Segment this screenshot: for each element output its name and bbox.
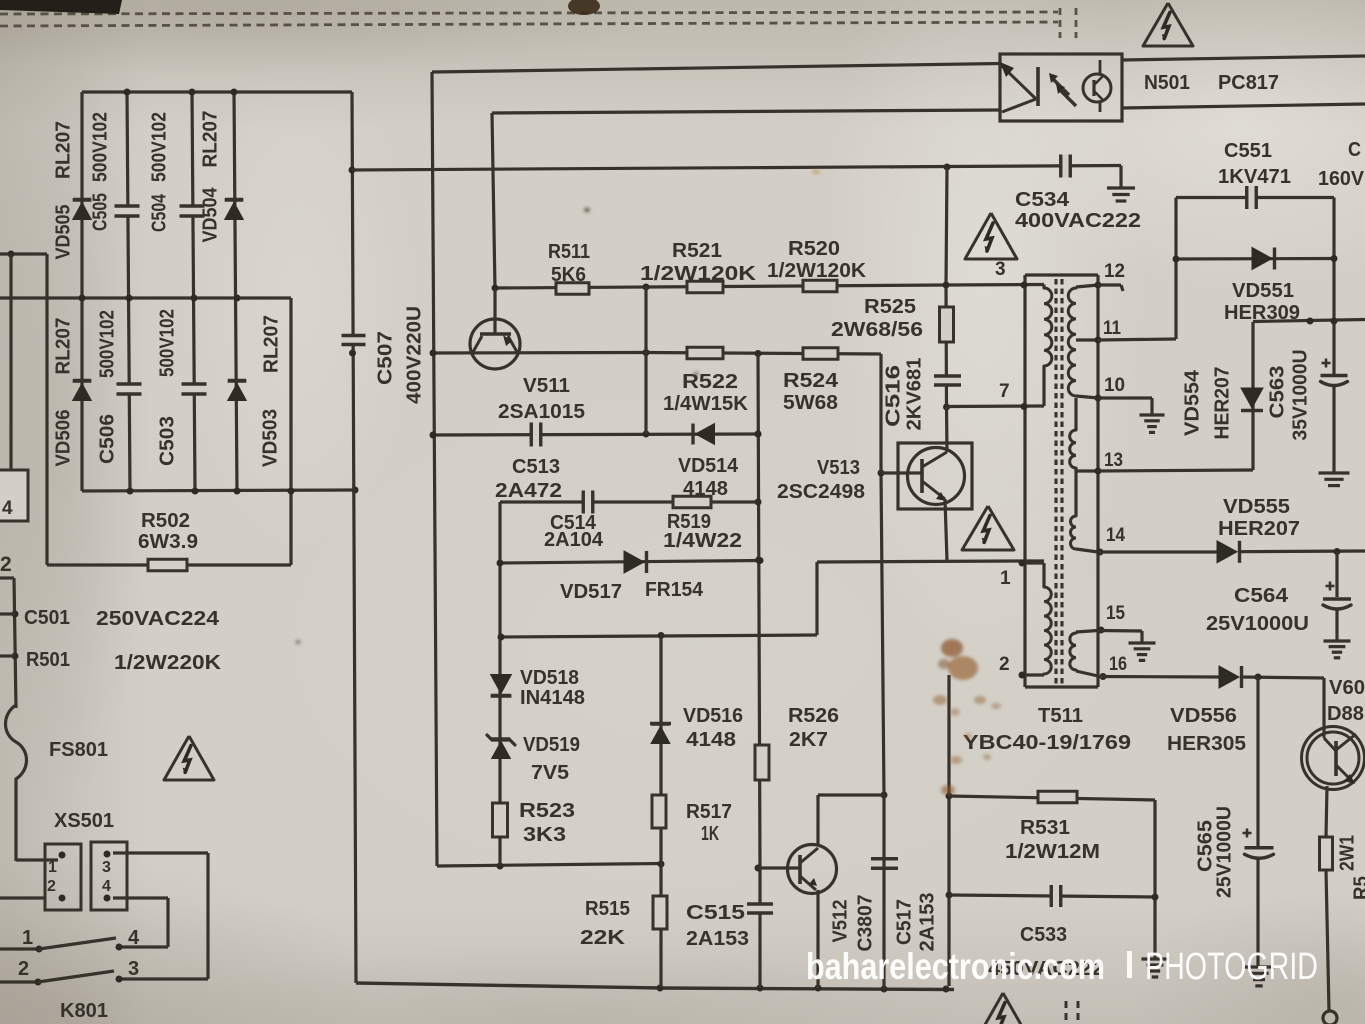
svg-text:C503: C503 — [156, 416, 178, 466]
svg-text:R525: R525 — [864, 296, 916, 318]
svg-text:25V1000U: 25V1000U — [1206, 613, 1309, 635]
svg-text:4148: 4148 — [686, 729, 736, 751]
svg-text:D88: D88 — [1327, 703, 1364, 725]
svg-text:C504: C504 — [148, 193, 170, 232]
svg-text:HER207: HER207 — [1211, 367, 1233, 440]
svg-text:C563: C563 — [1266, 366, 1288, 419]
svg-text:3K3: 3K3 — [523, 824, 566, 846]
svg-text:3: 3 — [128, 958, 139, 980]
svg-text:VD516: VD516 — [683, 705, 743, 727]
svg-text:2: 2 — [47, 878, 56, 895]
svg-text:160V: 160V — [1318, 168, 1365, 190]
svg-text:VD517: VD517 — [560, 581, 622, 603]
svg-text:2A153: 2A153 — [686, 928, 749, 950]
svg-text:500V102: 500V102 — [89, 112, 111, 182]
svg-text:K801: K801 — [60, 1000, 108, 1022]
svg-text:R502: R502 — [141, 510, 190, 532]
svg-text:R526: R526 — [788, 705, 839, 727]
svg-text:1/2W220K: 1/2W220K — [114, 652, 222, 674]
svg-text:VD519: VD519 — [523, 734, 580, 756]
svg-text:C516: C516 — [882, 365, 904, 427]
svg-text:16: 16 — [1109, 654, 1127, 675]
svg-text:1/4W22: 1/4W22 — [663, 530, 742, 552]
svg-text:35V1000U: 35V1000U — [1289, 350, 1311, 441]
svg-text:2KV681: 2KV681 — [903, 358, 925, 431]
svg-text:R511: R511 — [548, 241, 590, 263]
svg-text:RL207: RL207 — [199, 111, 221, 168]
svg-text:C564: C564 — [1234, 585, 1289, 607]
svg-text:1: 1 — [48, 859, 57, 876]
svg-text:R515: R515 — [585, 898, 630, 920]
svg-text:VD505: VD505 — [52, 205, 74, 260]
svg-text:500V102: 500V102 — [148, 112, 170, 182]
svg-text:500V102: 500V102 — [156, 309, 178, 377]
svg-text:4: 4 — [2, 498, 13, 519]
svg-text:10: 10 — [1104, 375, 1125, 396]
svg-text:C517: C517 — [893, 899, 915, 945]
svg-text:7V5: 7V5 — [531, 762, 569, 784]
svg-text:FS801: FS801 — [49, 739, 108, 761]
svg-text:6W3.9: 6W3.9 — [138, 531, 198, 553]
svg-text:2W68/56: 2W68/56 — [831, 319, 923, 341]
svg-text:C: C — [1348, 139, 1361, 161]
svg-text:V60: V60 — [1329, 677, 1365, 699]
svg-text:R523: R523 — [519, 800, 575, 822]
svg-text:VD514: VD514 — [678, 455, 739, 477]
svg-text:R521: R521 — [672, 240, 722, 262]
svg-text:5W68: 5W68 — [783, 392, 838, 414]
svg-text:2A153: 2A153 — [916, 893, 938, 952]
svg-text:C3807: C3807 — [854, 895, 876, 952]
svg-text:12: 12 — [1104, 261, 1125, 282]
svg-text:2: 2 — [0, 553, 12, 576]
svg-text:1K: 1K — [701, 823, 719, 845]
svg-text:5K6: 5K6 — [551, 264, 586, 286]
svg-text:C513: C513 — [512, 456, 560, 478]
svg-text:400V220U: 400V220U — [403, 306, 425, 404]
svg-text:250VAC224: 250VAC224 — [96, 608, 220, 630]
svg-text:V511: V511 — [523, 375, 570, 397]
svg-text:11: 11 — [1103, 318, 1121, 339]
svg-text:V513: V513 — [817, 457, 860, 479]
svg-text:400VAC222: 400VAC222 — [1015, 210, 1141, 232]
svg-text:RL207: RL207 — [260, 315, 282, 373]
svg-text:R520: R520 — [788, 238, 840, 260]
svg-text:1: 1 — [22, 927, 33, 949]
svg-text:R517: R517 — [686, 801, 732, 823]
svg-text:C507: C507 — [374, 331, 396, 385]
svg-text:1/2W120K: 1/2W120K — [640, 263, 757, 285]
svg-text:C501: C501 — [24, 607, 70, 629]
svg-text:2A104: 2A104 — [544, 529, 604, 551]
svg-text:C551: C551 — [1224, 140, 1272, 162]
svg-text:2A472: 2A472 — [495, 480, 562, 502]
svg-text:YBC40-19/1769: YBC40-19/1769 — [963, 732, 1131, 754]
svg-text:VD518: VD518 — [520, 667, 579, 689]
svg-text:FR154: FR154 — [645, 579, 704, 601]
svg-text:baharelectronic.com: baharelectronic.com — [806, 946, 1105, 987]
svg-text:3: 3 — [995, 259, 1006, 280]
svg-text:1/4W15K: 1/4W15K — [663, 393, 749, 415]
svg-text:1/2W12M: 1/2W12M — [1005, 841, 1100, 863]
svg-text:XS501: XS501 — [54, 810, 114, 832]
svg-text:RL207: RL207 — [52, 121, 74, 179]
svg-text:4: 4 — [102, 878, 111, 895]
svg-text:N501: N501 — [1144, 72, 1190, 94]
svg-text:HER305: HER305 — [1167, 733, 1246, 755]
svg-text:HER207: HER207 — [1218, 518, 1300, 540]
svg-text:PC817: PC817 — [1218, 72, 1279, 94]
svg-text:2SA1015: 2SA1015 — [498, 401, 585, 423]
svg-text:T511: T511 — [1038, 705, 1083, 727]
svg-text:VD556: VD556 — [1170, 705, 1237, 727]
svg-text:VD554: VD554 — [1181, 369, 1203, 436]
svg-text:15: 15 — [1106, 603, 1125, 624]
svg-text:2SC2498: 2SC2498 — [777, 481, 865, 503]
svg-text:2: 2 — [18, 958, 29, 980]
svg-text:1: 1 — [1000, 568, 1011, 589]
svg-text:7: 7 — [999, 381, 1010, 402]
svg-text:R531: R531 — [1020, 817, 1070, 839]
svg-text:14: 14 — [1106, 525, 1125, 546]
svg-text:C515: C515 — [686, 902, 745, 924]
svg-text:C506: C506 — [96, 414, 118, 464]
svg-text:500V102: 500V102 — [96, 310, 118, 378]
svg-text:C534: C534 — [1015, 189, 1070, 211]
svg-text:VD504: VD504 — [199, 187, 221, 243]
svg-text:RL207: RL207 — [52, 318, 74, 375]
svg-text:4148: 4148 — [683, 478, 728, 500]
svg-text:PHOTOGRID: PHOTOGRID — [1145, 946, 1318, 988]
svg-text:VD503: VD503 — [259, 409, 281, 467]
svg-text:VD551: VD551 — [1232, 280, 1294, 302]
svg-text:1KV471: 1KV471 — [1218, 166, 1291, 188]
svg-text:VD506: VD506 — [52, 410, 74, 467]
svg-text:13: 13 — [1104, 450, 1123, 471]
svg-text:2W1: 2W1 — [1336, 835, 1358, 871]
svg-text:2: 2 — [999, 654, 1010, 675]
svg-text:R501: R501 — [26, 649, 70, 671]
svg-text:22K: 22K — [580, 927, 626, 949]
svg-text:R524: R524 — [783, 370, 839, 392]
svg-text:1/2W120K: 1/2W120K — [767, 260, 867, 282]
svg-text:R5: R5 — [1350, 876, 1365, 900]
svg-text:IN4148: IN4148 — [520, 687, 585, 709]
svg-text:VD555: VD555 — [1223, 496, 1290, 518]
svg-text:25V1000U: 25V1000U — [1213, 806, 1235, 898]
svg-text:3: 3 — [102, 859, 111, 876]
svg-text:HER309: HER309 — [1224, 302, 1300, 324]
svg-text:C533: C533 — [1020, 924, 1067, 946]
svg-text:R522: R522 — [682, 371, 738, 393]
svg-text:V512: V512 — [829, 900, 851, 943]
svg-text:4: 4 — [128, 927, 140, 949]
svg-text:2K7: 2K7 — [789, 729, 828, 751]
svg-text:C505: C505 — [89, 193, 111, 231]
